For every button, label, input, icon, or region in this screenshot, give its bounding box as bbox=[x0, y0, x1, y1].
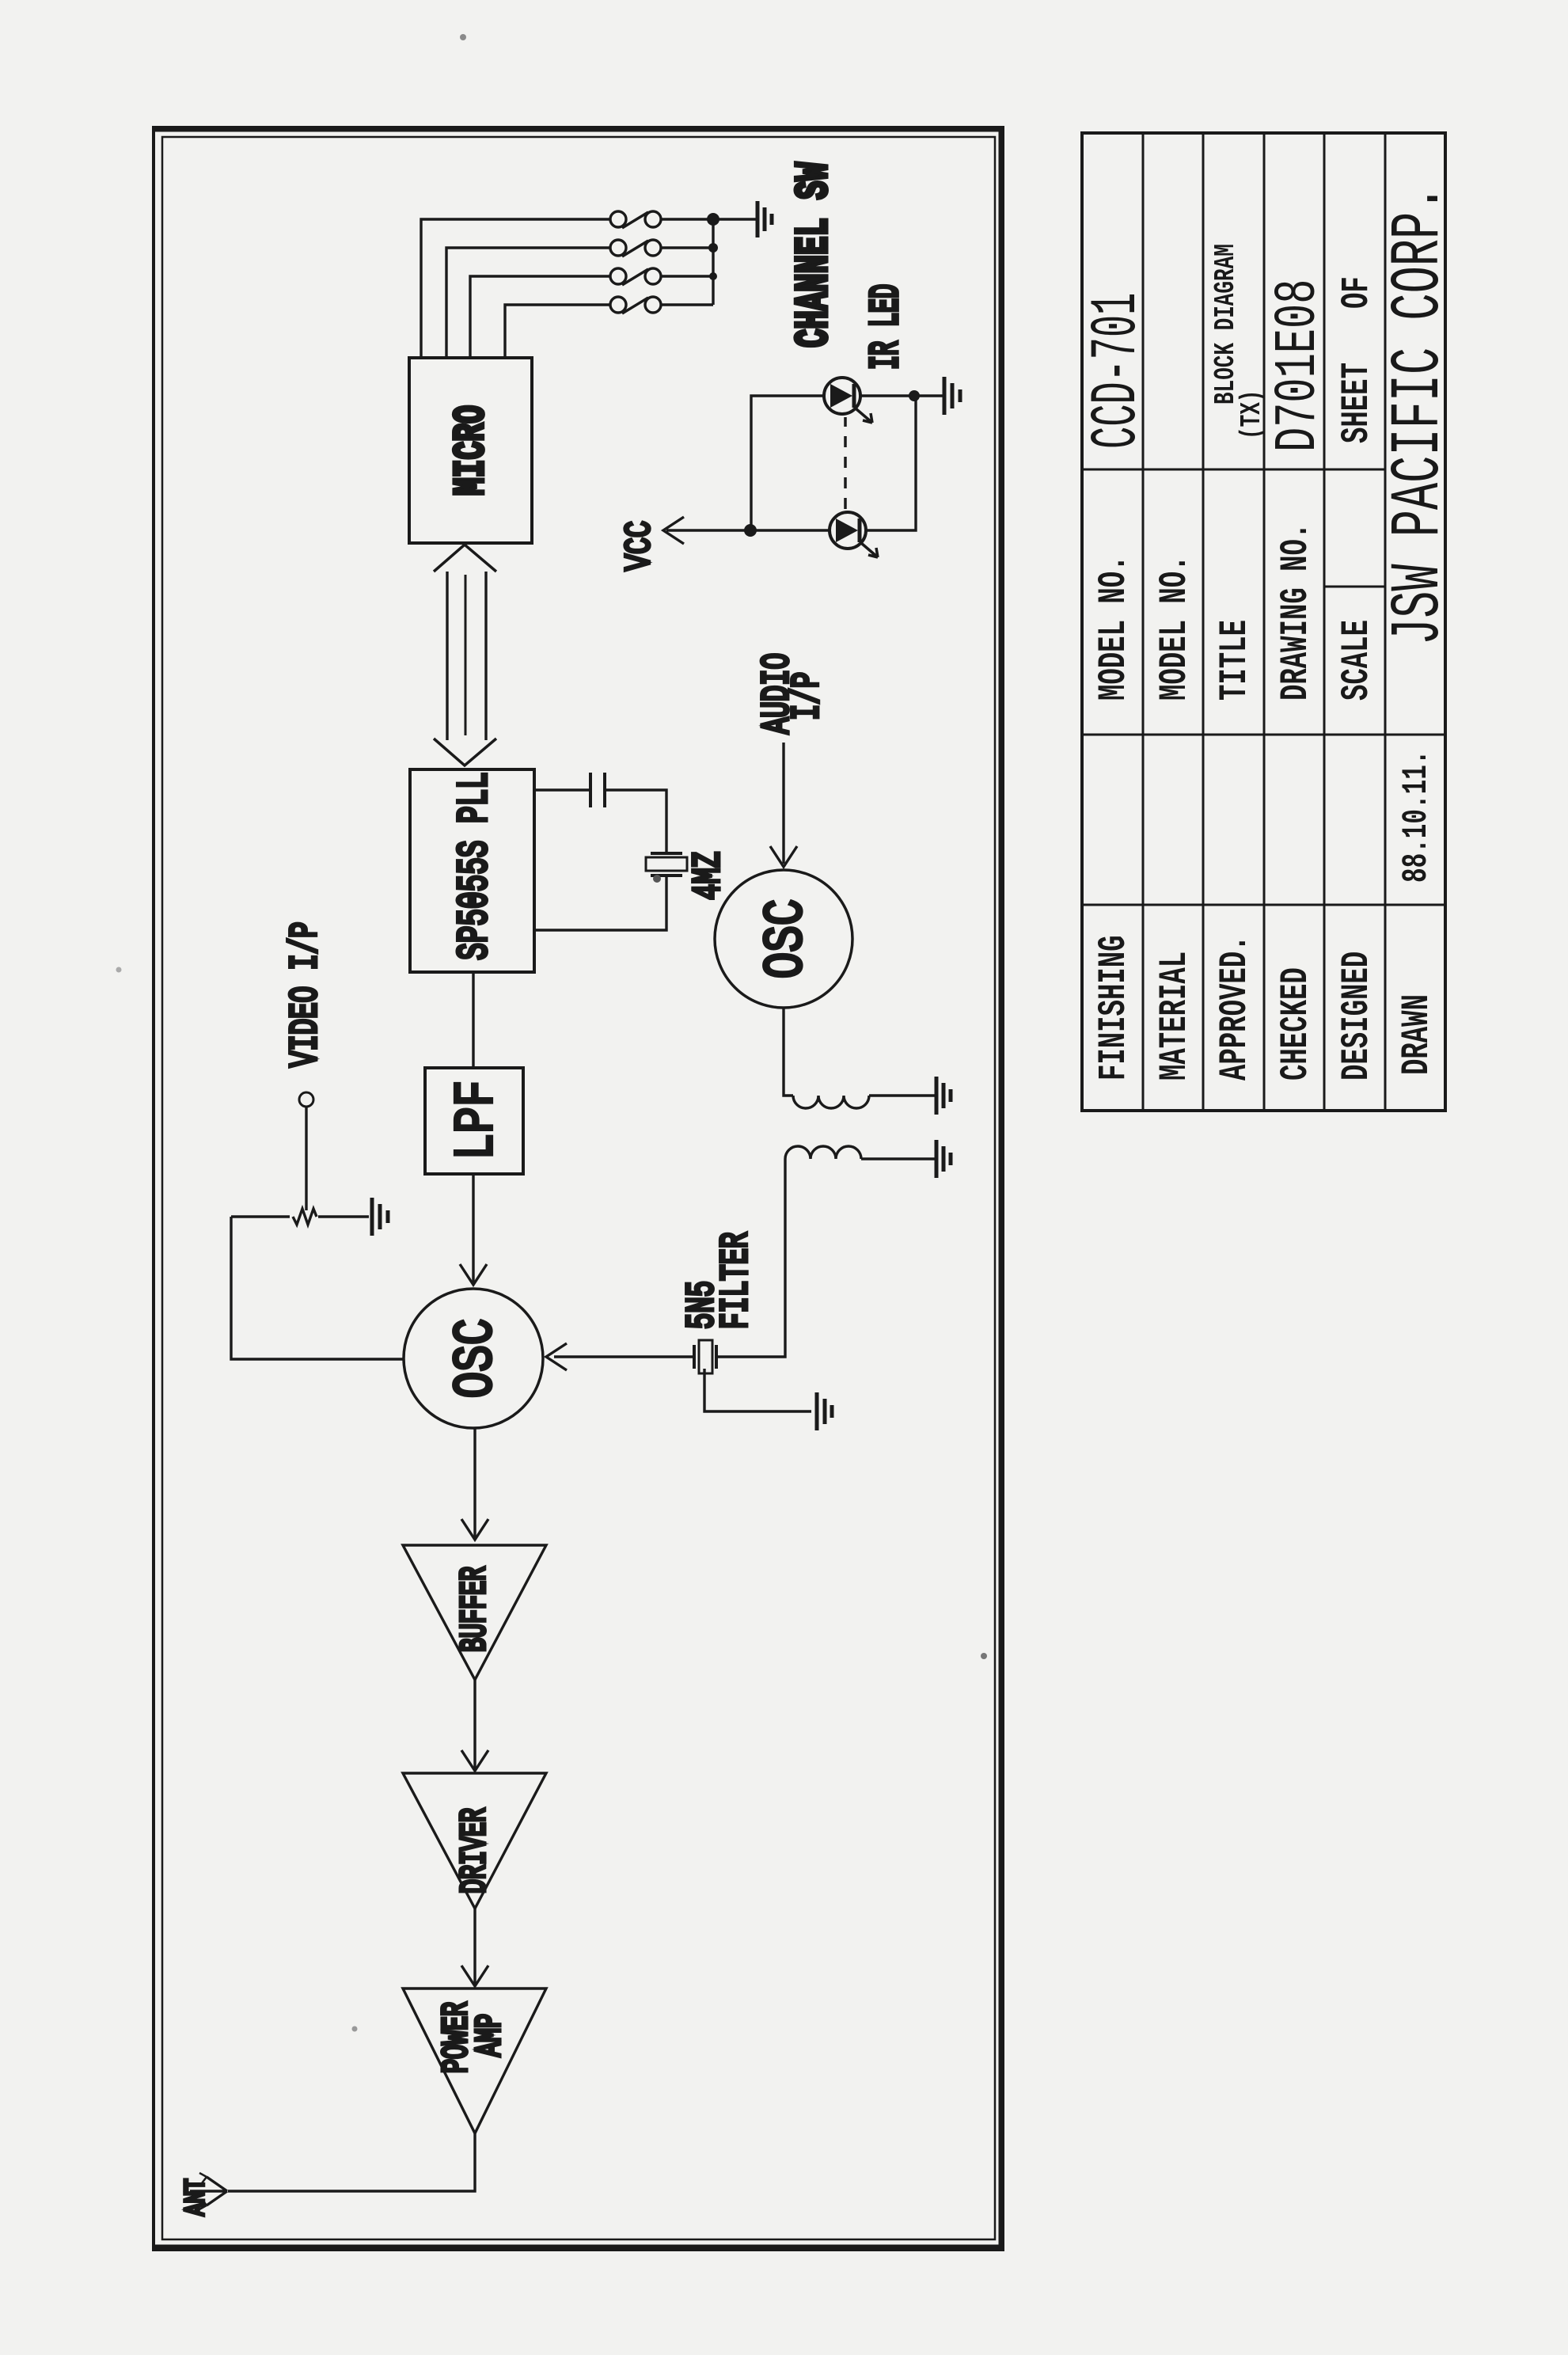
label IR LED bbox=[863, 284, 909, 370]
wire OSC to buffer bbox=[473, 1428, 476, 1538]
svg-text:SCALE: SCALE bbox=[1335, 620, 1379, 701]
microcontroller MICRO bbox=[409, 358, 532, 543]
resistor R1 (termination) bbox=[231, 1209, 369, 1225]
wire MICRO to switch S4 bbox=[505, 305, 610, 358]
svg-text:D701E08: D701E08 bbox=[1266, 279, 1332, 452]
wire switch bus bbox=[661, 219, 713, 305]
bus arrow PLL-MICRO bbox=[434, 545, 496, 765]
wire feedback to video OSC bbox=[231, 1217, 404, 1359]
wire to ground bbox=[914, 394, 944, 397]
svg-text:APPROVED.: APPROVED. bbox=[1213, 935, 1257, 1081]
svg-text:CCD-701: CCD-701 bbox=[1080, 293, 1154, 449]
input label AUDIO I/P bbox=[755, 653, 799, 734]
wire PLL pin to capacitor bbox=[534, 788, 590, 791]
wire capacitor to crystal node bbox=[605, 790, 666, 853]
svg-text:BUFFER: BUFFER bbox=[456, 1567, 496, 1652]
wire audio OSC to choke L1 bbox=[784, 1008, 793, 1096]
wire audio input bbox=[782, 743, 784, 864]
svg-text:CHECKED: CHECKED bbox=[1274, 967, 1318, 1081]
svg-text:AMP: AMP bbox=[471, 2014, 511, 2057]
svg-text:LPF: LPF bbox=[446, 1081, 510, 1160]
antenna ANT bbox=[190, 2173, 227, 2209]
svg-text:MODEL NO.: MODEL NO. bbox=[1092, 555, 1136, 701]
junction ground node bbox=[909, 390, 920, 401]
svg-text:(TX): (TX) bbox=[1236, 390, 1268, 439]
UPPER-RIGHT bbox=[116, 34, 988, 2032]
svg-text:I/P: I/P bbox=[785, 672, 830, 720]
wire L1 to ground bbox=[869, 1094, 936, 1096]
arrowhead into buffer bbox=[461, 1519, 488, 1540]
wire L2 to ground bbox=[861, 1157, 936, 1160]
svg-text:OSC: OSC bbox=[756, 899, 819, 979]
svg-text:MODEL NO.: MODEL NO. bbox=[1152, 555, 1197, 701]
label SP5055S PLL bbox=[450, 772, 499, 960]
arrowhead into power amp bbox=[461, 1966, 488, 1986]
label MICRO bbox=[448, 405, 497, 496]
PLL IC SP5055S bbox=[410, 769, 534, 972]
svg-text:DRIVER: DRIVER bbox=[456, 1808, 496, 1893]
wire MICRO to switch S2 bbox=[446, 248, 610, 358]
value label 4MZ bbox=[686, 852, 731, 900]
buffer amplifier BUFFER bbox=[403, 1545, 546, 1680]
label DRIVER bbox=[456, 1808, 496, 1893]
inductor L1 bbox=[793, 1096, 869, 1108]
switch S2 bbox=[610, 240, 661, 256]
oscillator OSC (audio subcarrier) bbox=[715, 870, 852, 1008]
input label VIDEO I/P bbox=[283, 921, 328, 1067]
svg-text:OF: OF bbox=[1335, 276, 1379, 309]
net label CHANNEL SW bbox=[788, 162, 841, 348]
crystal tap to ground bbox=[704, 1369, 811, 1411]
ground (channel switches) bbox=[757, 201, 772, 237]
inductor L2 bbox=[785, 1146, 861, 1159]
LED D1 (IR) bbox=[824, 378, 872, 423]
ground (audio choke) bbox=[936, 1077, 951, 1115]
wire video OSC to 5N5 filter bbox=[554, 1355, 694, 1358]
LED D2 (IR) bbox=[830, 512, 878, 557]
arrowhead into OSC bbox=[460, 1264, 487, 1285]
ground (IR LED) bbox=[944, 377, 960, 415]
wire buffer to driver bbox=[473, 1680, 476, 1769]
wire bus to ground bbox=[713, 218, 757, 220]
wire terminal to resistor tap bbox=[305, 1106, 307, 1210]
terminal VIDEO I/P bbox=[299, 1092, 313, 1107]
wire crystal to choke L2 bbox=[716, 1159, 785, 1357]
label LPF bbox=[446, 1081, 510, 1160]
TITLE-BLOCK bbox=[1082, 133, 1445, 1111]
junction VCC node bbox=[744, 524, 757, 537]
SHEET-FRAME bbox=[154, 127, 1003, 2250]
svg-text:MATERIAL: MATERIAL bbox=[1152, 951, 1197, 1081]
low pass filter LPF bbox=[425, 1068, 523, 1174]
power amplifier POWER AMP bbox=[403, 1988, 546, 2133]
wire MICRO to switch S1 bbox=[421, 219, 610, 358]
switch S4 bbox=[610, 297, 661, 313]
scan specks bbox=[116, 34, 988, 2032]
optical coupling dashed link bbox=[844, 417, 847, 509]
wire LPF to OSC bbox=[472, 1174, 474, 1283]
wire driver to power amp bbox=[473, 1909, 476, 1985]
wire MICRO to switch S3 bbox=[470, 276, 610, 358]
wire VCC node to LED D2 bbox=[750, 529, 830, 531]
label OSC (audio) bbox=[756, 899, 819, 979]
svg-text:FINISHING: FINISHING bbox=[1092, 935, 1136, 1081]
capacitor C1 bbox=[590, 773, 605, 807]
svg-text:JSW PACIFIC CORP.: JSW PACIFIC CORP. bbox=[1380, 185, 1460, 645]
svg-text:SP5055S PLL: SP5055S PLL bbox=[450, 772, 499, 960]
crystal X1 4MZ bbox=[646, 853, 687, 876]
wire VCC node to LED D1 bbox=[751, 396, 824, 530]
svg-text:DESIGNED: DESIGNED bbox=[1335, 951, 1379, 1081]
svg-text:TITLE: TITLE bbox=[1213, 620, 1257, 701]
ground (5N5 choke) bbox=[936, 1140, 951, 1178]
junction dots on bus bbox=[707, 213, 719, 280]
oscillator OSC (video RF) bbox=[404, 1289, 543, 1428]
svg-text:OSC: OSC bbox=[446, 1319, 509, 1399]
label BUFFER bbox=[456, 1567, 496, 1652]
wire LED D2 to ground node bbox=[866, 396, 916, 530]
label OSC bbox=[446, 1319, 509, 1399]
label ANT bbox=[181, 2178, 213, 2216]
wire LED D1 to ground node bbox=[860, 394, 914, 397]
driver amplifier DRIVER bbox=[403, 1773, 546, 1909]
svg-text:FILTER: FILTER bbox=[714, 1233, 758, 1329]
arrowhead into audio OSC bbox=[770, 846, 797, 867]
ground (video input) bbox=[372, 1198, 388, 1236]
TITLE-BLOCK-TEXT bbox=[1080, 185, 1459, 1081]
label POWER AMP bbox=[438, 2002, 478, 2073]
wire crystal to PLL pin 2 bbox=[534, 876, 666, 930]
wire LPF to PLL bbox=[472, 972, 474, 1068]
svg-text:IR LED: IR LED bbox=[863, 284, 909, 370]
arrowhead into video OSC bbox=[546, 1343, 567, 1370]
svg-text:VIDEO I/P: VIDEO I/P bbox=[283, 921, 328, 1067]
VCC feed arrow bbox=[663, 517, 750, 544]
svg-text:CHANNEL SW: CHANNEL SW bbox=[788, 162, 841, 348]
switch S1 bbox=[610, 211, 661, 228]
label 5N5 FILTER bbox=[680, 1281, 724, 1329]
svg-text:ANT: ANT bbox=[181, 2178, 213, 2216]
wire ANT to power amp bbox=[228, 2133, 475, 2191]
crystal filter 5N5 bbox=[694, 1340, 716, 1373]
ground (5N5 tap) bbox=[817, 1392, 832, 1430]
svg-text:DRAWING NO.: DRAWING NO. bbox=[1274, 523, 1318, 701]
svg-text:SHEET: SHEET bbox=[1335, 363, 1379, 443]
svg-text:88.10.11.: 88.10.11. bbox=[1396, 750, 1437, 883]
svg-text:VCC: VCC bbox=[620, 521, 661, 571]
svg-text:4MZ: 4MZ bbox=[686, 852, 731, 900]
power label VCC bbox=[620, 521, 661, 571]
svg-text:DRAWN: DRAWN bbox=[1395, 994, 1439, 1075]
svg-text:MICRO: MICRO bbox=[448, 405, 497, 496]
arrowhead into driver bbox=[461, 1750, 488, 1771]
switch S3 bbox=[610, 268, 661, 285]
svg-text:BLOCK DIAGRAM: BLOCK DIAGRAM bbox=[1210, 244, 1242, 405]
